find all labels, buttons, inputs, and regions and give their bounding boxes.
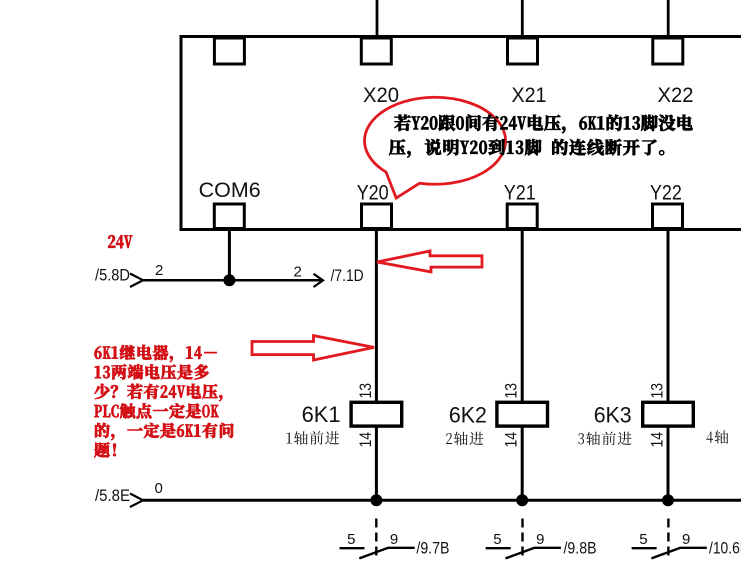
svg-text:/9.7B: /9.7B (416, 539, 449, 558)
junction node Y21 column on 0V bus (516, 494, 528, 506)
wire Y20 to coil 6K1 pin 13 (375, 231, 378, 403)
contact 6K3 aux 5-9 right lead pin 9 (680, 547, 707, 549)
svg-text:13: 13 (648, 383, 667, 399)
contact 6K3 aux 5-9 linkage dashed line (667, 519, 669, 558)
contact 6K2 aux 5-9 left lead pin 5 (486, 547, 511, 549)
function label 4轴 for 6K4 (cut off) (706, 430, 728, 444)
svg-text:6K3: 6K3 (594, 403, 632, 428)
contact 6K1 aux 5-9 right lead pin 9 (388, 547, 415, 549)
terminal pin X20 input 1 (214, 38, 244, 64)
terminal pin COM6 (214, 204, 244, 229)
svg-text:/5.8D: /5.8D (95, 266, 130, 285)
contact 6K1 aux 5-9 linkage dashed line (375, 519, 377, 558)
svg-text:14: 14 (502, 432, 521, 448)
junction node Y20 column on 0V bus (370, 494, 382, 506)
contact 6K3 aux 5-9 blade (651, 548, 680, 559)
junction node 24V rail (223, 274, 235, 286)
relay coil 6K2 (497, 402, 548, 426)
annotation red text line 4 (95, 403, 219, 418)
annotation text 24V (108, 235, 132, 248)
wire input feed 3 (667, 0, 670, 36)
svg-text:5: 5 (493, 531, 501, 548)
relay coil 6K1 (351, 402, 402, 426)
svg-text:6K1: 6K1 (302, 402, 341, 427)
function label 1轴前进 for 6K1 (286, 431, 339, 445)
function label 3轴前进 for 6K3 (578, 432, 631, 446)
contact 6K1 aux 5-9 blade (359, 548, 388, 559)
24V rail wire /5.8D to /7.1D (142, 279, 321, 282)
svg-text:2: 2 (294, 264, 302, 281)
terminal pin X22 (653, 38, 683, 64)
svg-text:6K2: 6K2 (449, 403, 487, 428)
svg-text:/7.1D: /7.1D (331, 266, 364, 285)
svg-text:Y22: Y22 (650, 182, 682, 205)
terminal pin Y22 (653, 204, 683, 229)
svg-text:9: 9 (536, 531, 544, 548)
wire coil 6K2 pin 14 to 0V bus (521, 426, 524, 500)
svg-text:5: 5 (347, 531, 355, 548)
svg-text:X22: X22 (658, 84, 694, 107)
contact 6K2 aux 5-9 blade (506, 548, 535, 559)
svg-text:COM6: COM6 (199, 179, 261, 202)
annotation red text line 5 (95, 423, 233, 440)
svg-text:13: 13 (502, 383, 521, 399)
svg-text:/9.8B: /9.8B (564, 539, 597, 558)
arrowhead destination /7.1D (314, 274, 324, 287)
contact 6K1 aux 5-9 left lead pin 5 (340, 547, 365, 549)
PLC box outline U1 (181, 37, 741, 232)
annotation red text line 6 (94, 442, 115, 457)
junction node Y22 column on 0V bus (662, 494, 674, 506)
wire coil 6K3 pin 14 to 0V bus (667, 426, 670, 500)
arrowhead source /5.8D (130, 274, 143, 288)
svg-text:13: 13 (356, 383, 375, 399)
terminal pin Y21 (507, 204, 537, 229)
svg-text:5: 5 (639, 531, 647, 548)
svg-text:14: 14 (356, 432, 375, 448)
svg-text:9: 9 (682, 531, 690, 548)
wire Y21 to coil 6K2 pin 13 (521, 231, 524, 403)
svg-text:X21: X21 (512, 84, 547, 107)
contact 6K3 aux 5-9 left lead pin 5 (632, 547, 657, 549)
wire COM6 to 24V rail (228, 231, 231, 280)
terminal pin Y20 (362, 204, 392, 229)
svg-text:0: 0 (155, 480, 163, 497)
svg-text:/5.8E: /5.8E (95, 486, 130, 505)
wire input feed 1 (376, 0, 379, 36)
bubble text line 1 (395, 115, 693, 134)
wire Y22 to coil 6K3 pin 13 (667, 231, 670, 403)
wire coil 6K1 pin 14 to 0V bus (375, 426, 378, 500)
annotation arrow pointing right at coil wire (252, 336, 374, 360)
terminal pin X21 (508, 38, 538, 64)
contact 6K2 aux 5-9 linkage dashed line (521, 519, 523, 558)
annotation red text line 2 (95, 364, 209, 379)
annotation arrow pointing left at Y20 wire (377, 251, 482, 272)
svg-text:Y20: Y20 (357, 182, 389, 205)
bubble text line 2 (389, 139, 664, 157)
contact 6K2 aux 5-9 right lead pin 9 (534, 547, 561, 549)
arrowhead source /5.8E (130, 494, 143, 508)
annotation speech bubble outline (365, 97, 506, 198)
terminal pin X20 (361, 38, 391, 64)
svg-text:14: 14 (648, 432, 667, 448)
svg-text:X20: X20 (363, 84, 399, 107)
svg-text:/10.6B: /10.6B (709, 539, 741, 558)
svg-text:2: 2 (155, 262, 163, 279)
svg-text:9: 9 (390, 531, 398, 548)
wire input feed 2 (521, 0, 524, 36)
function label 2轴进 for 6K2 (446, 432, 483, 446)
0V bus wire /5.8E (142, 499, 741, 502)
svg-text:Y21: Y21 (504, 182, 536, 205)
annotation red text line 3 (95, 384, 223, 401)
annotation red text line 1 (95, 345, 217, 362)
relay coil 6K3 (643, 402, 694, 426)
